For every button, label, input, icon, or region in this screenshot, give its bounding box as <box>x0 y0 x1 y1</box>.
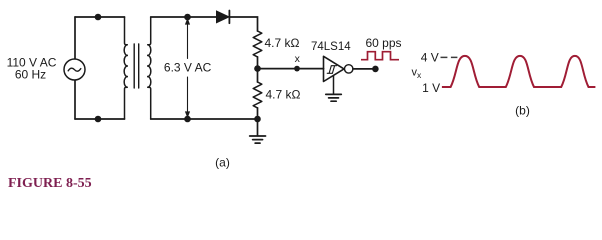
svg-text:6.3 V AC: 6.3 V AC <box>164 61 212 75</box>
wire node x to gate input <box>258 68 324 70</box>
svg-text:4 V: 4 V <box>421 51 439 65</box>
resistor R1 4.7k <box>253 31 262 57</box>
wire bottom of primary loop <box>75 118 125 120</box>
node dot output <box>372 66 379 73</box>
wire node x to R2 <box>257 69 259 82</box>
diode D1 <box>217 11 230 24</box>
node dot bottom right <box>254 116 261 123</box>
wire diode to right rail <box>229 17 257 31</box>
wire secondary top <box>151 16 217 18</box>
node dot arrow top <box>184 14 191 21</box>
label 6.3 V AC <box>162 61 213 75</box>
svg-text:74LS14: 74LS14 <box>311 41 351 53</box>
svg-text:(a): (a) <box>215 156 230 170</box>
AC source V1 <box>64 59 85 80</box>
svg-text:60 pps: 60 pps <box>366 36 402 50</box>
node dot bottom of primary loop <box>95 116 102 123</box>
wire top of primary loop <box>75 16 125 18</box>
waveform vx (b) <box>442 56 596 87</box>
svg-text:60 Hz: 60 Hz <box>15 68 46 82</box>
node dot top of primary loop <box>95 14 102 21</box>
ground at gate <box>326 76 342 101</box>
svg-text:1 V: 1 V <box>422 81 440 95</box>
resistor R2 4.7k <box>253 82 262 108</box>
node dot x <box>294 66 300 72</box>
ground at divider bottom <box>250 119 266 143</box>
transformer T1 primary winding <box>124 17 128 119</box>
pulse symbol 60 pps <box>361 52 399 60</box>
transformer T1 secondary winding <box>147 17 151 119</box>
svg-text:FIGURE 8-55: FIGURE 8-55 <box>8 176 92 191</box>
wire R1 to node x <box>257 57 259 69</box>
op-amp U1 74LS14 inverter <box>324 56 353 81</box>
svg-text:(b): (b) <box>515 103 530 117</box>
wire left side of primary loop <box>74 17 76 119</box>
dashed level line 4V <box>441 56 458 58</box>
node dot arrow bottom <box>184 116 191 123</box>
transformer T1 core <box>134 44 139 88</box>
svg-text:4.7 kΩ: 4.7 kΩ <box>266 88 301 102</box>
wire gate output <box>353 68 373 70</box>
svg-text:vx: vx <box>412 67 423 81</box>
wire R2 to bottom rail <box>257 108 259 119</box>
wire secondary bottom <box>151 118 258 120</box>
svg-text:4.7 kΩ: 4.7 kΩ <box>265 36 300 50</box>
svg-text:x: x <box>295 53 301 65</box>
measurement arrow 6.3 V AC <box>185 18 190 118</box>
node dot at divider tap <box>254 65 261 72</box>
